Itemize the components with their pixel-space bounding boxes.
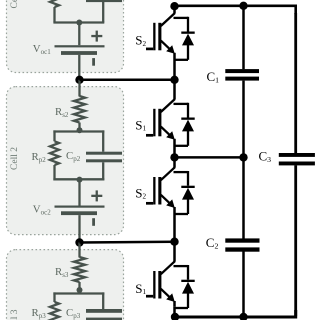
wire tap1 to switch bus [80, 79, 175, 82]
diode DQ4 S1 top wire [174, 265, 189, 267]
wire tap2 to switch bus [80, 240, 175, 243]
diode DQ4 S1 anode wire [187, 293, 189, 308]
transistor Q1 S2 body bar [158, 23, 161, 51]
capacitor C2 top plate [225, 238, 259, 242]
transistor Q2 S1 emitter arrowhead [166, 131, 175, 140]
battery Voc2 plus sign [91, 195, 102, 197]
diode DQ3 S2 cathode wire [187, 171, 189, 186]
diode DQ3 S2 anode wire [187, 199, 189, 214]
diode DQ3 S2 top wire [174, 171, 189, 173]
wire top rail [175, 6, 296, 14]
wire tap to Rs3 [78, 243, 80, 258]
wire loop right cell3 [102, 292, 104, 309]
transistor Q2 S1 body bar [158, 109, 161, 137]
diode DQ1 S2 triangle [182, 34, 194, 46]
diode DQ2 S1 bottom wire [174, 145, 189, 147]
Cell 2 model box [7, 87, 124, 235]
transistor Q2 S1 collector diagonal [161, 99, 175, 112]
transistor Q4 S1 collector wire [173, 242, 176, 262]
resistor Rp2 [50, 141, 59, 165]
diode DQ1 S2 cathode wire [187, 17, 189, 32]
node switch bus / tap2 [170, 238, 178, 246]
transistor Q3 S2 body bar [158, 177, 161, 205]
diode DQ1 S2 cathode bar [181, 32, 194, 34]
Cell 1 model box [7, 0, 124, 73]
wire C bus lower [242, 252, 245, 318]
wire C3 bus lower [294, 165, 297, 316]
wire C3 bus upper [294, 13, 297, 153]
transistor Q4 S1 emitter arrowhead [166, 293, 175, 302]
node loop-battery cell2 [77, 177, 83, 183]
capacitor C3 top plate [279, 153, 315, 157]
transistor Q4 S1 gate lead [146, 295, 153, 298]
svg-text:Cell 3: Cell 3 [10, 309, 20, 320]
wire battery to node [78, 55, 80, 80]
transistor Q4 S1 collector diagonal [161, 261, 175, 274]
node cell2/cell3 tap [75, 238, 83, 246]
node switch bus bottom [171, 313, 179, 320]
resistor Rs3 [74, 257, 85, 282]
battery Voc2 short plate [61, 211, 97, 215]
transistor Q1 S2 collector wire [173, 7, 176, 13]
transistor Q4 S1 emitter diagonal [161, 289, 172, 299]
wire loop top cell3 [53, 292, 104, 294]
wire to battery Voc2 [78, 180, 80, 206]
transistor Q1 S2 gate bar [153, 23, 155, 51]
wire loop bottom cell1 [53, 21, 104, 23]
transistor Q1 S2 emitter arrowhead [166, 45, 175, 54]
resistor Rs2 [74, 96, 85, 123]
svg-text:Cell 2: Cell 2 [10, 147, 20, 170]
battery Voc1 long plate [55, 45, 105, 47]
node switch bus / tap1 [170, 76, 178, 84]
wire Cp1 to loop bottom [102, 1, 104, 23]
wire C bus middle [242, 81, 245, 239]
wire loop bottom cell2 [53, 178, 104, 180]
diode DQ2 S1 triangle [182, 120, 194, 132]
capacitor Cp2 top plate [86, 152, 122, 155]
wire battery to tap cell2 [78, 215, 80, 242]
transistor Q2 S1 emitter wire [173, 139, 176, 158]
wire bottom rail [173, 310, 296, 317]
svg-text:Cell 1: Cell 1 [10, 0, 20, 8]
diode DQ3 S2 cathode bar [181, 186, 194, 188]
diode DQ1 S2 top wire [174, 17, 189, 19]
wire loop right upper cell2 [102, 130, 104, 151]
node Rs3-loop junction [77, 287, 83, 293]
wire loop left lower cell2 [53, 165, 55, 180]
transistor Q2 S1 gate bar [153, 109, 155, 137]
wire loop left upper cell2 [53, 130, 55, 141]
battery Voc2 minus sign [92, 218, 95, 226]
resistor Rp1 (partially visible) [50, 0, 59, 7]
node loop-battery cell1 [76, 20, 82, 26]
battery Voc1 plus sign [91, 35, 102, 37]
wire C bus upper [242, 6, 245, 69]
diode DQ4 S1 cathode bar [181, 280, 194, 282]
transistor Q4 S1 body bar [158, 271, 161, 299]
wire loop right lower cell2 [102, 162, 104, 180]
transistor Q2 S1 gate lead [146, 134, 153, 137]
wire loop left cell3 [53, 292, 55, 302]
capacitor Cp1 plate (partially visible) [86, 0, 122, 2]
transistor Q1 S2 gate lead [146, 48, 153, 51]
transistor Q3 S2 gate bar [153, 177, 155, 205]
transistor Q4 S1 gate bar [153, 271, 155, 299]
node Rs2-loop junction [77, 127, 83, 133]
node bottom rail / C bus [239, 313, 247, 320]
wire to battery Voc1 [78, 23, 80, 46]
node switch bus mid [170, 153, 178, 161]
node cell1/cell2 tap [75, 76, 83, 84]
capacitor Cp2 bottom plate [86, 159, 122, 162]
battery Voc1 short plate [61, 51, 97, 55]
wire loop top cell2 [53, 130, 104, 132]
battery Voc2 long plate [55, 206, 105, 208]
diode DQ4 S1 triangle [182, 282, 194, 294]
transistor Q1 S2 emitter diagonal [161, 41, 172, 51]
transistor Q3 S2 emitter wire [173, 207, 176, 242]
battery Voc1 minus sign [92, 58, 95, 66]
diode DQ2 S1 anode wire [187, 131, 189, 146]
transistor Q3 S2 collector wire [173, 157, 176, 167]
resistor Rp3 (partially visible) [50, 302, 59, 320]
wire Rs3 to loop [78, 282, 80, 294]
diode DQ3 S2 triangle [182, 188, 194, 200]
diode DQ2 S1 cathode bar [181, 118, 194, 120]
Cell 3 model box [7, 250, 124, 320]
node C bus mid [239, 153, 247, 161]
diode DQ1 S2 anode wire [187, 45, 189, 60]
capacitor C1 top plate [225, 69, 259, 73]
transistor Q1 S2 collector diagonal [161, 13, 175, 26]
diode DQ2 S1 cathode wire [187, 103, 189, 118]
transistor Q3 S2 collector diagonal [161, 167, 175, 180]
capacitor C1 bottom plate [225, 77, 259, 81]
capacitor Cp3 bottom plate (partially visible) [86, 318, 122, 320]
diode DQ4 S1 bottom wire [174, 307, 189, 309]
transistor Q4 S1 emitter wire [173, 301, 176, 306]
transistor Q3 S2 emitter arrowhead [166, 199, 175, 208]
diode DQ4 S1 cathode wire [187, 265, 189, 280]
diode DQ4/emitter joint wire to bottom bus [173, 306, 176, 317]
diode DQ1 S2 bottom wire [174, 59, 189, 61]
wire Rp1 to loop bottom [53, 7, 55, 23]
transistor Q1 S2 emitter wire [173, 53, 176, 80]
capacitor C2 bottom plate [225, 247, 259, 251]
transistor Q3 S2 emitter diagonal [161, 195, 172, 205]
node switch bus top [170, 2, 178, 10]
wire Rs2 to loop [78, 123, 80, 132]
node top rail / C bus [239, 2, 247, 10]
transistor Q2 S1 emitter diagonal [161, 127, 172, 137]
wire tap to Rs2 [78, 80, 80, 97]
capacitor C3 bottom plate [279, 162, 315, 166]
capacitor Cp3 top plate [86, 309, 122, 313]
transistor Q2 S1 collector wire [173, 80, 176, 100]
diode DQ3 S2 bottom wire [174, 213, 189, 215]
transistor Q3 S2 gate lead [146, 202, 153, 205]
wire mid node to capacitor bus [175, 156, 244, 159]
diode DQ2 S1 top wire [174, 103, 189, 105]
